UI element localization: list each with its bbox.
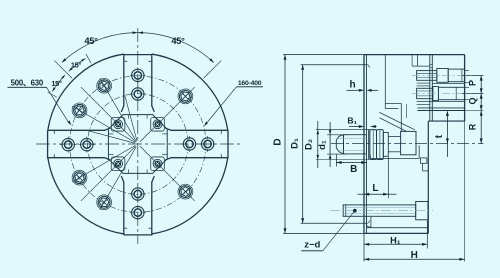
45deg extension lines [54,61,221,79]
svg-text:15°: 15° [51,79,62,88]
svg-text:h: h [349,80,355,91]
bottom jaw guide [121,176,154,235]
svg-text:R: R [467,123,477,130]
retainer hook [366,216,371,227]
label D2 [304,139,315,150]
right jaw screws [182,136,216,152]
chuck body outer circle [48,54,228,234]
label 15 lower [51,79,62,88]
label 45 right [171,36,185,46]
body front face [364,55,367,234]
svg-text:z−d: z−d [304,240,320,251]
svg-text:B₁: B₁ [347,116,357,126]
15deg arcs [52,58,85,91]
dim L [358,157,397,198]
top jaw screws [130,67,146,102]
45deg dimension arc [62,31,214,62]
dim B [336,155,366,176]
svg-text:H: H [411,250,418,261]
svg-text:H₁: H₁ [390,235,401,245]
central octagon boss [108,115,167,174]
label 15 upper [71,60,82,69]
top jaw guide [121,55,154,112]
stud B [412,87,484,101]
label D [273,138,284,145]
svg-text:45°: 45° [171,36,185,46]
bottom jaw screws [130,186,146,221]
vertical centerline [137,28,139,244]
T-slot lines [108,115,167,174]
svg-text:L: L [372,183,378,194]
section centerline [331,143,484,145]
svg-text:B: B [350,164,357,175]
stud A [412,69,484,83]
svg-text:d₁: d₁ [317,140,328,150]
inner wall [384,55,386,109]
dim H1 [364,221,427,262]
jaw serrations [417,83,465,110]
leader 500-630 [8,87,72,125]
svg-text:15°: 15° [71,60,82,69]
label D1 [290,138,301,149]
svg-text:D₁: D₁ [290,138,301,149]
label 500-630 [11,78,44,87]
left jaw screws [60,137,95,153]
svg-text:D: D [273,138,284,145]
label 45 left [84,36,98,46]
wedge cavity [380,104,415,132]
radial construction lines [72,78,195,210]
top jaw block [412,55,465,122]
corner cam screws [114,120,162,168]
svg-text:Q: Q [467,97,477,104]
dim PQR [462,71,484,144]
washer at face [368,130,369,160]
svg-text:160-400: 160-400 [238,80,262,87]
svg-text:P: P [467,80,477,86]
leader z-d [301,209,356,251]
horizontal centerline [36,143,240,145]
bolt circle r50 (dash-dot) [88,94,189,195]
leader 160-400 [204,87,263,127]
right jaw guide [165,128,228,160]
body back face lower [427,121,429,233]
dim d1 line [327,122,346,167]
dim D2 line [316,121,370,168]
z-d bolt [330,202,433,220]
label 160-400 [238,80,262,87]
svg-text:D₂: D₂ [304,139,315,150]
dim B1 [347,116,376,128]
label d1 [317,140,328,150]
body top edge [364,54,465,56]
svg-text:45°: 45° [84,36,98,46]
body bottom edge [364,228,428,234]
step below wedge [370,146,428,171]
left jaw guide [48,128,111,160]
nut 1 [370,130,377,160]
wedge block [401,131,416,154]
dim t [434,111,449,157]
bolt circle r68 (dash-dot) [70,76,206,212]
nut 2 [377,130,384,160]
body back face upper [430,55,433,122]
svg-text:500、630: 500、630 [11,78,44,87]
washer 2 [383,133,388,157]
dim H [364,121,465,261]
center stud [336,135,400,154]
dim h [346,80,378,92]
dim D1 line [301,65,370,224]
hex socket bolts [72,78,193,209]
15deg extension lines [48,54,91,97]
corner pads [111,117,164,170]
dim D line [283,55,364,234]
